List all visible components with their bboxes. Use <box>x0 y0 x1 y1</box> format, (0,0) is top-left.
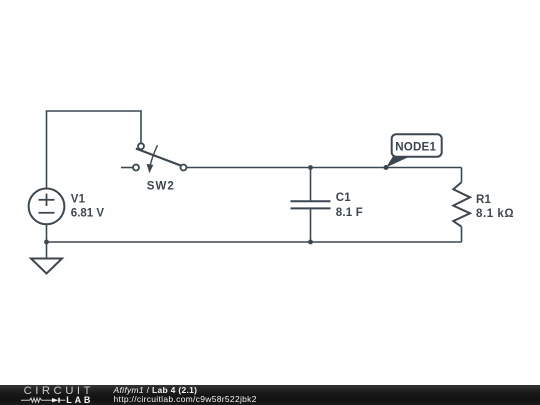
svg-text:8.1 F: 8.1 F <box>336 207 363 219</box>
svg-text:6.81 V: 6.81 V <box>71 208 105 220</box>
svg-text:C1: C1 <box>336 192 352 204</box>
svg-text:R1: R1 <box>476 194 492 206</box>
svg-text:8.1 kΩ: 8.1 kΩ <box>476 208 514 220</box>
svg-text:V1: V1 <box>71 194 86 206</box>
svg-text:SW2: SW2 <box>147 180 175 192</box>
svg-text:NODE1: NODE1 <box>395 141 436 154</box>
